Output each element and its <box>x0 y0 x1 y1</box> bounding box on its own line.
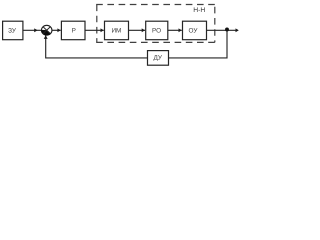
svg-text:ДУ: ДУ <box>153 55 162 62</box>
svg-text:РО: РО <box>152 27 161 34</box>
svg-text:Н-Н: Н-Н <box>193 7 205 14</box>
svg-text:ОУ: ОУ <box>189 27 199 34</box>
svg-text:ИМ: ИМ <box>111 27 121 34</box>
svg-text:ЗУ: ЗУ <box>8 27 17 34</box>
svg-text:Р: Р <box>72 27 76 34</box>
